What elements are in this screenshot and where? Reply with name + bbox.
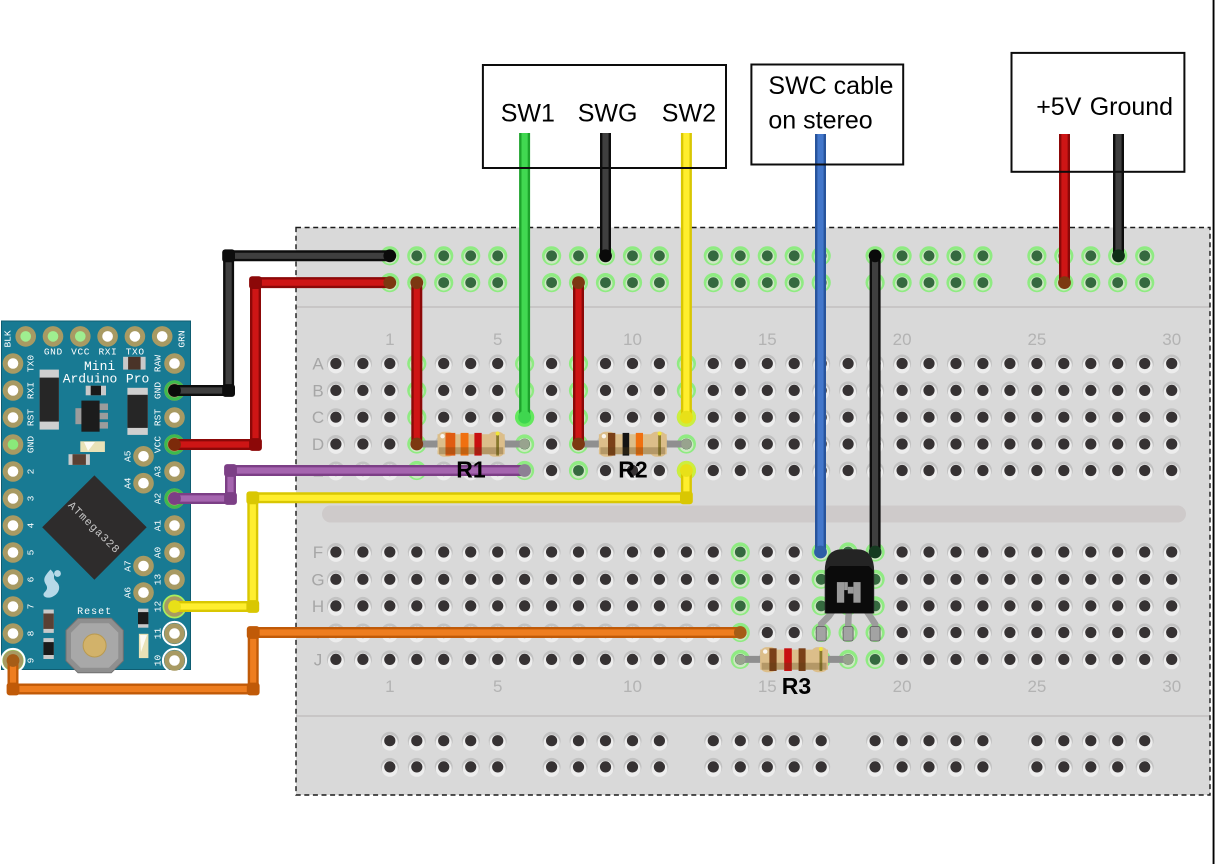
svg-text:C: C bbox=[312, 408, 324, 427]
svg-text:A6: A6 bbox=[123, 587, 134, 599]
svg-text:GND: GND bbox=[26, 436, 37, 453]
svg-text:25: 25 bbox=[1027, 677, 1046, 696]
svg-text:7: 7 bbox=[26, 604, 37, 610]
svg-text:10: 10 bbox=[623, 677, 642, 696]
svg-text:GRN: GRN bbox=[177, 330, 188, 347]
svg-text:SWC cable: SWC cable bbox=[768, 72, 893, 100]
svg-text:VCC: VCC bbox=[71, 347, 90, 358]
svg-text:GND: GND bbox=[44, 347, 63, 358]
svg-text:RAW: RAW bbox=[153, 355, 164, 372]
svg-text:30: 30 bbox=[1162, 677, 1181, 696]
svg-text:G: G bbox=[311, 570, 324, 589]
svg-text:12: 12 bbox=[153, 601, 164, 613]
svg-text:B: B bbox=[312, 381, 323, 400]
svg-text:3: 3 bbox=[26, 495, 37, 501]
svg-text:9: 9 bbox=[26, 657, 37, 663]
svg-text:5: 5 bbox=[493, 677, 502, 696]
svg-text:R1: R1 bbox=[456, 457, 486, 483]
svg-text:4: 4 bbox=[26, 522, 37, 528]
svg-text:GND: GND bbox=[153, 382, 164, 399]
svg-text:A0: A0 bbox=[153, 547, 164, 559]
svg-text:10: 10 bbox=[153, 655, 164, 667]
svg-text:1: 1 bbox=[385, 677, 394, 696]
svg-text:Ground: Ground bbox=[1090, 93, 1173, 121]
svg-text:D: D bbox=[312, 435, 324, 454]
svg-text:A5: A5 bbox=[123, 450, 134, 462]
svg-text:20: 20 bbox=[893, 677, 912, 696]
svg-text:H: H bbox=[312, 597, 324, 616]
svg-text:13: 13 bbox=[153, 574, 164, 586]
svg-text:RXI: RXI bbox=[98, 347, 117, 358]
svg-text:1: 1 bbox=[385, 330, 394, 349]
svg-text:A1: A1 bbox=[153, 520, 164, 532]
svg-text:20: 20 bbox=[893, 330, 912, 349]
svg-text:Reset: Reset bbox=[77, 607, 112, 618]
svg-text:A4: A4 bbox=[123, 477, 134, 489]
svg-text:25: 25 bbox=[1027, 330, 1046, 349]
svg-text:15: 15 bbox=[758, 330, 777, 349]
svg-text:VCC: VCC bbox=[153, 436, 164, 453]
svg-text:Arduino: Arduino bbox=[63, 372, 118, 387]
svg-text:RST: RST bbox=[153, 409, 164, 426]
svg-text:11: 11 bbox=[153, 628, 164, 640]
svg-text:A: A bbox=[312, 355, 324, 374]
svg-text:A7: A7 bbox=[123, 560, 134, 571]
svg-text:5: 5 bbox=[26, 549, 37, 555]
svg-text:SW2: SW2 bbox=[662, 99, 716, 127]
svg-text:F: F bbox=[313, 543, 323, 562]
svg-text:SW1: SW1 bbox=[501, 99, 555, 127]
svg-text:RXI: RXI bbox=[26, 382, 37, 399]
svg-text:8: 8 bbox=[26, 630, 37, 636]
svg-text:R2: R2 bbox=[618, 457, 647, 483]
svg-text:Pro: Pro bbox=[126, 372, 149, 387]
svg-text:TX0: TX0 bbox=[26, 355, 37, 372]
svg-text:TXO: TXO bbox=[126, 347, 145, 358]
svg-text:6: 6 bbox=[26, 576, 37, 582]
svg-text:+5V: +5V bbox=[1036, 93, 1082, 121]
svg-text:5: 5 bbox=[493, 330, 502, 349]
svg-text:2: 2 bbox=[26, 468, 37, 474]
svg-text:RST: RST bbox=[26, 409, 37, 426]
svg-text:R3: R3 bbox=[782, 673, 811, 699]
svg-text:on stereo: on stereo bbox=[768, 107, 872, 135]
svg-text:J: J bbox=[314, 650, 323, 669]
svg-text:15: 15 bbox=[758, 677, 777, 696]
svg-text:A3: A3 bbox=[153, 466, 164, 478]
svg-text:SWG: SWG bbox=[578, 99, 638, 127]
svg-text:10: 10 bbox=[623, 330, 642, 349]
svg-text:30: 30 bbox=[1162, 330, 1181, 349]
svg-text:A2: A2 bbox=[153, 493, 164, 505]
svg-text:BLK: BLK bbox=[3, 330, 14, 347]
